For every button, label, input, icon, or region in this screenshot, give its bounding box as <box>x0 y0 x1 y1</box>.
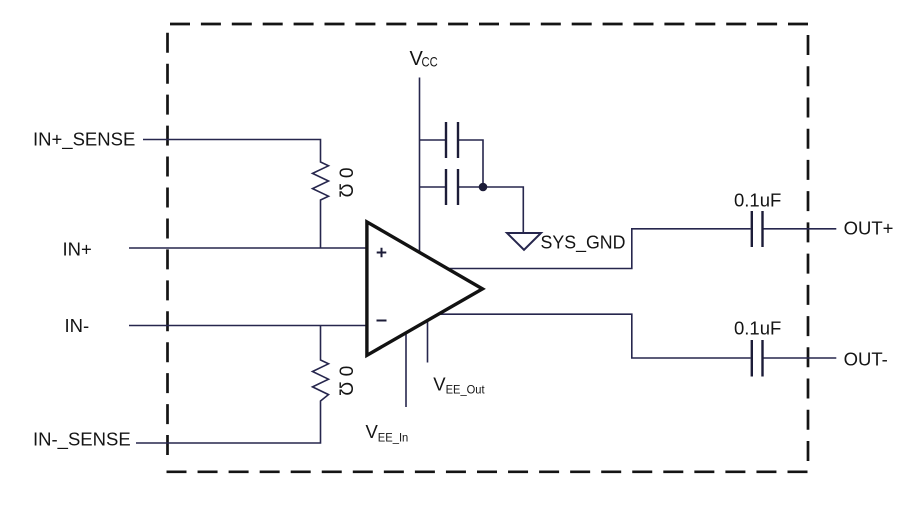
svg-text:IN+: IN+ <box>63 239 92 260</box>
svg-text:CC: CC <box>422 54 438 70</box>
svg-text:0 Ω: 0 Ω <box>335 366 356 396</box>
svg-text:SYS_GND: SYS_GND <box>541 233 626 254</box>
svg-text:EE_Out: EE_Out <box>446 382 486 396</box>
svg-text:0.1uF: 0.1uF <box>734 318 781 339</box>
svg-text:0.1uF: 0.1uF <box>734 189 781 210</box>
svg-text:0 Ω: 0 Ω <box>335 168 356 198</box>
svg-text:IN-_SENSE: IN-_SENSE <box>33 429 131 451</box>
svg-text:IN-: IN- <box>65 315 90 336</box>
svg-text:EE_In: EE_In <box>378 430 409 444</box>
svg-text:V: V <box>433 373 446 394</box>
svg-text:IN+_SENSE: IN+_SENSE <box>33 129 135 151</box>
svg-text:V: V <box>366 421 379 442</box>
svg-text:OUT+: OUT+ <box>844 218 894 239</box>
svg-text:OUT-: OUT- <box>844 348 888 369</box>
